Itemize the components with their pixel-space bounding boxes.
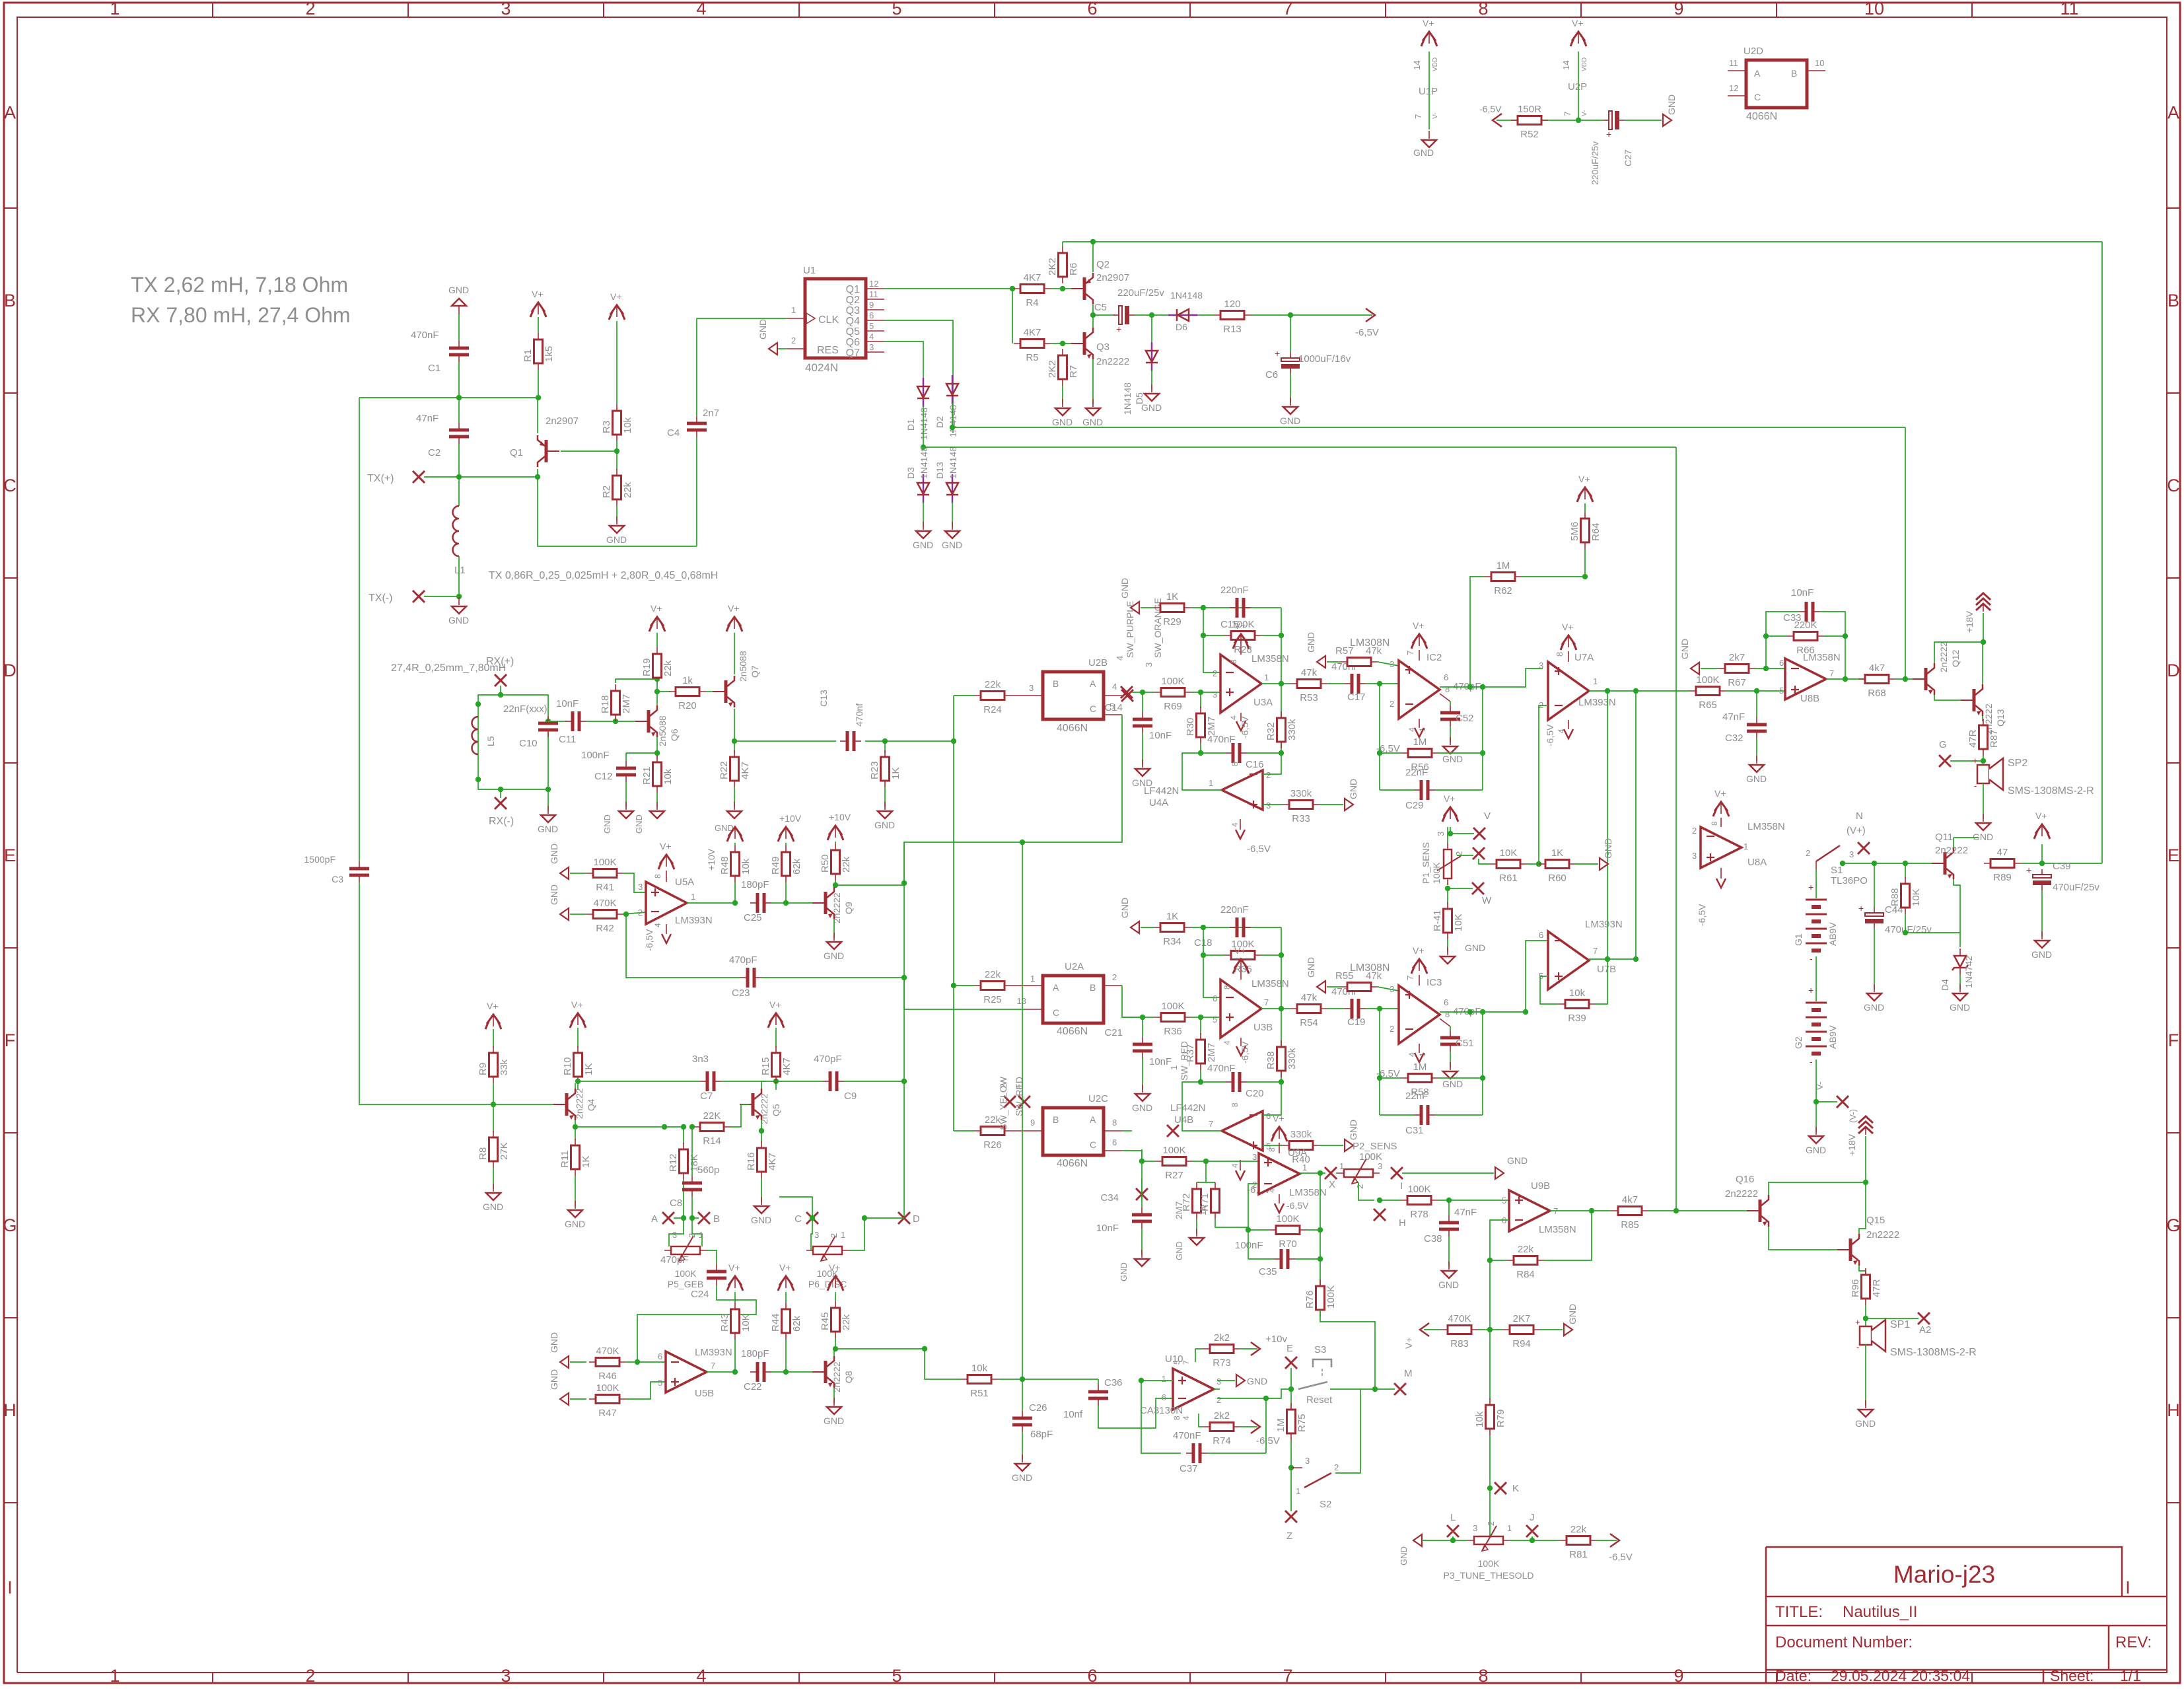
svg-text:4k7: 4k7 bbox=[1622, 1194, 1638, 1205]
frame column ticks and numbers bbox=[212, 3, 213, 17]
svg-text:B: B bbox=[4, 291, 16, 310]
svg-text:VDD: VDD bbox=[1581, 57, 1588, 71]
svg-text:2: 2 bbox=[305, 0, 315, 18]
junction bbox=[1605, 956, 1610, 962]
node X above C34 bbox=[1136, 1188, 1148, 1200]
svg-text:150R: 150R bbox=[1518, 104, 1541, 115]
junction bbox=[1201, 605, 1206, 610]
svg-text:A: A bbox=[1090, 678, 1096, 689]
svg-text:1: 1 bbox=[1169, 1065, 1179, 1070]
svg-text:-6,5V: -6,5V bbox=[1240, 716, 1250, 738]
ground below R72 bbox=[1196, 1229, 1197, 1237]
svg-text:10K: 10K bbox=[1500, 847, 1518, 859]
node +10v arrow bbox=[1251, 1342, 1260, 1355]
wire U7A output row bbox=[1589, 690, 1689, 692]
svg-text:C11: C11 bbox=[559, 734, 576, 745]
op-amp U8B LM358N bbox=[1785, 659, 1826, 700]
svg-text:7: 7 bbox=[1563, 112, 1572, 116]
svg-text:GND: GND bbox=[757, 319, 768, 340]
svg-text:-6,5V: -6,5V bbox=[1479, 104, 1502, 114]
svg-text:2K2: 2K2 bbox=[1047, 258, 1058, 275]
capacitor C16 470nF bbox=[1201, 752, 1226, 754]
svg-text:C2: C2 bbox=[428, 447, 440, 458]
resistor R10 bbox=[577, 1028, 579, 1048]
svg-text:Date:: Date: bbox=[1775, 1667, 1812, 1684]
junction bbox=[535, 474, 540, 480]
junction bbox=[1981, 639, 1986, 645]
capacitor C18 220nF bbox=[1230, 927, 1237, 928]
ground below R21 bbox=[656, 802, 658, 810]
svg-text:R12: R12 bbox=[668, 1153, 679, 1172]
svg-text:2: 2 bbox=[1806, 848, 1810, 858]
capacitor C39 470uF/25v bbox=[2041, 869, 2043, 876]
junction bbox=[1201, 925, 1206, 930]
svg-text:LM358N: LM358N bbox=[1747, 821, 1785, 832]
svg-text:S3: S3 bbox=[1314, 1344, 1326, 1355]
resistor R69 bbox=[1154, 692, 1191, 693]
wire IC3 output bbox=[1440, 1011, 1526, 1013]
svg-text:GND: GND bbox=[1603, 838, 1613, 859]
svg-text:+: + bbox=[1275, 348, 1280, 359]
svg-text:U2A: U2A bbox=[1065, 961, 1084, 972]
svg-text:1: 1 bbox=[1296, 1486, 1300, 1496]
svg-text:470K: 470K bbox=[1448, 1313, 1471, 1324]
svg-text:K: K bbox=[1512, 1483, 1519, 1494]
svg-text:GND: GND bbox=[1413, 147, 1434, 158]
svg-text:A: A bbox=[651, 1213, 658, 1225]
svg-text:GND: GND bbox=[1306, 957, 1316, 978]
svg-text:+: + bbox=[2026, 865, 2031, 875]
svg-text:1M: 1M bbox=[1413, 737, 1427, 748]
junction bbox=[810, 1215, 815, 1221]
svg-text:470K: 470K bbox=[596, 1346, 619, 1357]
svg-text:GND: GND bbox=[1973, 832, 1993, 842]
resistor R33 bbox=[1263, 804, 1283, 805]
svg-text:10nF: 10nF bbox=[1791, 587, 1814, 598]
svg-text:R33: R33 bbox=[1292, 813, 1310, 824]
wire U8B output bbox=[1826, 678, 1869, 680]
svg-text:1k: 1k bbox=[682, 675, 693, 686]
svg-text:Q7: Q7 bbox=[750, 665, 760, 678]
svg-text:62k: 62k bbox=[791, 858, 802, 875]
capacitor C2 bbox=[458, 398, 460, 423]
svg-text:GND: GND bbox=[1348, 779, 1358, 799]
svg-text:3: 3 bbox=[1144, 663, 1154, 667]
svg-text:220K: 220K bbox=[1794, 620, 1817, 631]
svg-text:C4: C4 bbox=[667, 427, 680, 439]
svg-text:A: A bbox=[1754, 68, 1761, 79]
capacitor C15 220nF bbox=[1230, 607, 1237, 608]
ground below SP2 bbox=[1983, 814, 1984, 822]
svg-text:C25: C25 bbox=[744, 912, 762, 923]
svg-text:2M7: 2M7 bbox=[1206, 1043, 1217, 1062]
junction bbox=[623, 912, 629, 917]
svg-text:10K: 10K bbox=[1453, 914, 1464, 931]
junction bbox=[662, 1124, 667, 1130]
svg-text:2k2: 2k2 bbox=[1214, 1410, 1230, 1421]
power +10V above R50 bbox=[829, 826, 842, 835]
svg-text:2n2222: 2n2222 bbox=[831, 1361, 842, 1392]
capacitor C35 100nF bbox=[1248, 1258, 1274, 1260]
svg-text:U3A: U3A bbox=[1253, 697, 1273, 708]
svg-text:1N4742: 1N4742 bbox=[1963, 956, 1974, 988]
svg-text:2n2222: 2n2222 bbox=[831, 892, 842, 923]
svg-text:2: 2 bbox=[1266, 770, 1271, 780]
svg-text:D: D bbox=[3, 661, 17, 680]
svg-text:CA3130N: CA3130N bbox=[1140, 1405, 1183, 1416]
svg-text:7: 7 bbox=[1283, 0, 1292, 18]
node B bbox=[698, 1212, 710, 1224]
svg-text:C9: C9 bbox=[844, 1091, 857, 1102]
svg-text:2n2222: 2n2222 bbox=[1935, 845, 1968, 856]
svg-text:V+: V+ bbox=[769, 999, 781, 1010]
svg-text:R13: R13 bbox=[1223, 324, 1242, 335]
wire bbox=[586, 721, 647, 722]
svg-text:GND: GND bbox=[1052, 417, 1073, 427]
junction bbox=[759, 1128, 764, 1133]
junction bbox=[575, 1079, 581, 1084]
svg-text:R46: R46 bbox=[598, 1371, 617, 1382]
junction bbox=[732, 900, 738, 906]
svg-text:F: F bbox=[5, 1030, 16, 1050]
wire top bus y366 bbox=[1063, 241, 2102, 242]
svg-text:4: 4 bbox=[653, 923, 662, 927]
ground arrow right R40 bbox=[1345, 1139, 1353, 1151]
svg-text:7: 7 bbox=[1264, 997, 1269, 1007]
svg-text:Q2: Q2 bbox=[1096, 259, 1110, 270]
svg-text:220nF: 220nF bbox=[1220, 585, 1249, 596]
svg-text:R88: R88 bbox=[1889, 888, 1901, 906]
junction bbox=[1576, 118, 1581, 123]
svg-text:R27: R27 bbox=[1165, 1170, 1183, 1181]
svg-text:C: C bbox=[1053, 1007, 1059, 1018]
power +18V above Q12 bbox=[1976, 593, 1990, 600]
resistor R88 bbox=[1905, 863, 1906, 879]
svg-text:470nF: 470nF bbox=[1207, 1063, 1236, 1074]
svg-text:GND: GND bbox=[1567, 1304, 1578, 1324]
svg-text:C37: C37 bbox=[1180, 1463, 1198, 1474]
node -6,5V below U3A bbox=[1236, 721, 1246, 731]
svg-text:Reset: Reset bbox=[1306, 1394, 1333, 1406]
resistor R50 bbox=[835, 844, 836, 880]
ground arrow pin3 bbox=[1217, 1380, 1235, 1381]
svg-text:Q11: Q11 bbox=[1935, 832, 1953, 843]
wire feedback right bbox=[1281, 608, 1282, 753]
svg-text:3: 3 bbox=[1305, 1456, 1310, 1466]
svg-text:2n2222: 2n2222 bbox=[759, 1093, 769, 1124]
svg-text:-: - bbox=[1810, 953, 1813, 964]
capacitor C14 10nF bbox=[1142, 692, 1143, 712]
svg-text:V+: V+ bbox=[1714, 788, 1726, 799]
wire U3A output bbox=[1261, 683, 1290, 684]
svg-text:5: 5 bbox=[1779, 686, 1784, 696]
svg-text:22k: 22k bbox=[622, 482, 633, 498]
resistor R74 bbox=[1199, 1414, 1203, 1427]
junction bbox=[1763, 633, 1769, 639]
svg-text:R19: R19 bbox=[641, 658, 652, 676]
capacitor C31 22nF bbox=[1380, 1114, 1414, 1116]
svg-text:7: 7 bbox=[1181, 1360, 1191, 1365]
svg-text:6: 6 bbox=[1444, 997, 1448, 1007]
resistor R27 bbox=[1156, 1161, 1193, 1162]
resistor R67 bbox=[1718, 668, 1755, 669]
ground below C44 bbox=[1874, 984, 1875, 992]
diode D5 1N4148 bbox=[1151, 315, 1152, 342]
junction bbox=[1279, 1079, 1284, 1085]
junction bbox=[1480, 684, 1485, 690]
svg-text:V+: V+ bbox=[1234, 945, 1246, 956]
svg-text:C: C bbox=[1090, 1139, 1096, 1150]
power V+ above U7A bbox=[1562, 635, 1575, 645]
ground arrow left P3 bbox=[1413, 1534, 1422, 1546]
svg-text:6: 6 bbox=[658, 1351, 662, 1361]
svg-text:R11: R11 bbox=[559, 1151, 571, 1168]
potentiometer P1_SENS bbox=[1447, 843, 1448, 885]
svg-text:R39: R39 bbox=[1568, 1013, 1586, 1024]
ground below R11 bbox=[575, 1201, 576, 1209]
wire x2434 to U7B bbox=[1607, 691, 1608, 959]
svg-text:U4B: U4B bbox=[1174, 1114, 1193, 1126]
svg-text:2: 2 bbox=[1216, 1395, 1221, 1405]
svg-text:5: 5 bbox=[892, 0, 901, 18]
svg-text:14: 14 bbox=[1561, 61, 1571, 70]
resistor R54 bbox=[1290, 1008, 1327, 1009]
resistor R23 bbox=[884, 741, 886, 753]
svg-text:TL36PO: TL36PO bbox=[1831, 875, 1868, 886]
svg-text:RX 7,80 mH, 27,4 Ohm: RX 7,80 mH, 27,4 Ohm bbox=[131, 303, 351, 327]
svg-text:C22: C22 bbox=[744, 1381, 762, 1392]
resistor R58 1M loop bbox=[1379, 1009, 1380, 1115]
svg-text:R38: R38 bbox=[1265, 1051, 1277, 1069]
junction bbox=[1480, 1009, 1485, 1015]
svg-text:+10v: +10v bbox=[1265, 1334, 1287, 1345]
junction bbox=[1903, 930, 1908, 935]
junction bbox=[833, 1346, 838, 1351]
svg-text:I: I bbox=[2125, 1578, 2131, 1598]
junction bbox=[1467, 684, 1473, 690]
svg-text:GND: GND bbox=[1306, 632, 1316, 653]
wire feedback left bbox=[1203, 927, 1220, 997]
diode D3 1N4148 bbox=[923, 474, 925, 503]
svg-text:22k: 22k bbox=[841, 1314, 852, 1330]
junction bbox=[901, 880, 907, 886]
svg-text:6: 6 bbox=[1779, 658, 1784, 668]
svg-text:1N4148: 1N4148 bbox=[948, 405, 958, 437]
svg-text:R18: R18 bbox=[600, 695, 611, 713]
resistor R47 bbox=[589, 1398, 626, 1400]
svg-text:7: 7 bbox=[1209, 1119, 1213, 1129]
svg-text:8: 8 bbox=[1267, 1147, 1277, 1152]
svg-text:R34: R34 bbox=[1163, 936, 1181, 947]
wire R50 to bus bbox=[835, 884, 904, 886]
resistor R13 bbox=[1214, 314, 1251, 316]
svg-text:LM393N: LM393N bbox=[1585, 919, 1623, 930]
svg-text:2: 2 bbox=[829, 1233, 839, 1238]
svg-text:2n7: 2n7 bbox=[703, 408, 719, 419]
svg-text:100K: 100K bbox=[1431, 862, 1442, 884]
node -6,5V arrow bbox=[1493, 114, 1502, 127]
svg-text:Mario-j23: Mario-j23 bbox=[1893, 1561, 1995, 1588]
capacitor C36 10nf bbox=[1098, 1379, 1099, 1384]
junction bbox=[882, 738, 888, 744]
power V+ above IC3 bbox=[1413, 959, 1426, 968]
svg-text:330k: 330k bbox=[1290, 788, 1312, 799]
svg-text:3: 3 bbox=[1213, 690, 1217, 700]
resistor R83 bbox=[1441, 1329, 1478, 1330]
svg-text:H: H bbox=[1399, 1217, 1406, 1229]
svg-text:+: + bbox=[1606, 129, 1611, 139]
resistor R49 bbox=[785, 845, 787, 882]
feedback C33/R66 bbox=[1766, 612, 1799, 668]
power V+ above Q7 bbox=[728, 617, 741, 626]
svg-text:GND: GND bbox=[1465, 943, 1485, 953]
power V+ above U5A bbox=[660, 855, 673, 864]
resistor R96 bbox=[1865, 1268, 1866, 1305]
svg-text:2n2222: 2n2222 bbox=[1096, 356, 1129, 367]
svg-text:3: 3 bbox=[1216, 1377, 1221, 1386]
node -6,5V arrow bbox=[1366, 308, 1375, 322]
wire U4A minus input bbox=[1263, 753, 1281, 774]
junction bbox=[1673, 1208, 1679, 1213]
svg-text:V+: V+ bbox=[1572, 18, 1584, 28]
svg-text:IC2: IC2 bbox=[1427, 652, 1442, 663]
power V+ above U8A bbox=[1714, 802, 1728, 811]
wire R15 to collector bbox=[761, 1081, 776, 1082]
svg-text:R9: R9 bbox=[477, 1063, 489, 1075]
junction bbox=[1536, 861, 1541, 867]
junction bbox=[862, 1215, 867, 1221]
junction bbox=[1279, 681, 1284, 686]
svg-text:RES: RES bbox=[817, 345, 839, 356]
resistor R42 bbox=[570, 914, 586, 915]
resistor R14 bbox=[693, 1126, 730, 1128]
svg-text:R96: R96 bbox=[1850, 1279, 1861, 1297]
ground arrow R42 bbox=[560, 908, 569, 920]
svg-text:10k: 10k bbox=[740, 858, 752, 875]
svg-text:U2D: U2D bbox=[1744, 46, 1763, 57]
svg-text:560p: 560p bbox=[697, 1165, 719, 1176]
svg-text:1K: 1K bbox=[581, 1156, 592, 1168]
node W bbox=[1448, 888, 1473, 889]
svg-text:A: A bbox=[2167, 103, 2179, 123]
svg-text:180pF: 180pF bbox=[741, 1348, 769, 1359]
svg-text:C36: C36 bbox=[1104, 1377, 1123, 1388]
ground below SP1 bbox=[1865, 1400, 1866, 1408]
svg-text:7: 7 bbox=[1405, 651, 1415, 655]
svg-text:LM358N: LM358N bbox=[1539, 1224, 1576, 1235]
wire bbox=[1815, 1060, 1817, 1102]
capacitor C13 470nf bbox=[840, 740, 847, 742]
wire feedback left bbox=[1203, 608, 1220, 672]
wire U10 feedback loop bbox=[1141, 1381, 1181, 1453]
svg-text:4024N: 4024N bbox=[805, 361, 838, 374]
resistor R36 bbox=[1154, 1017, 1191, 1018]
svg-text:10nF: 10nF bbox=[1096, 1223, 1119, 1234]
junction bbox=[1372, 1386, 1378, 1392]
svg-text:3: 3 bbox=[1378, 1161, 1382, 1171]
svg-text:1M: 1M bbox=[1413, 1061, 1427, 1073]
svg-text:2n2222: 2n2222 bbox=[1938, 641, 1949, 672]
svg-text:GND: GND bbox=[549, 884, 559, 905]
capacitor C8 560p bbox=[691, 1127, 693, 1176]
svg-text:GND: GND bbox=[1132, 1102, 1152, 1113]
wire bbox=[1625, 120, 1662, 121]
ground below C51 bbox=[1450, 1062, 1451, 1070]
svg-text:Sheet:: Sheet: bbox=[2050, 1667, 2094, 1684]
svg-text:TX 0,86R_0,25_0,025mH + 2,80R_: TX 0,86R_0,25_0,025mH + 2,80R_0,45_0,68m… bbox=[489, 570, 718, 581]
resistor R70 feedback bbox=[1248, 1229, 1269, 1231]
transistor Q7 2n5088 bbox=[724, 680, 728, 703]
svg-text:R23: R23 bbox=[869, 761, 880, 779]
power V+ above R43 bbox=[728, 1276, 742, 1285]
svg-text:L: L bbox=[1450, 1512, 1456, 1523]
svg-text:V+: V+ bbox=[2035, 810, 2047, 821]
junction bbox=[1198, 690, 1203, 695]
svg-text:1N4148: 1N4148 bbox=[948, 447, 958, 479]
speaker SP1 SMS-1308MS-2-R bbox=[1865, 1318, 1866, 1326]
svg-text:22nF(xxx): 22nF(xxx) bbox=[503, 703, 547, 715]
svg-text:D: D bbox=[2167, 661, 2180, 680]
svg-text:5: 5 bbox=[1172, 1360, 1181, 1365]
wire bbox=[1527, 863, 1539, 865]
ground below D5 bbox=[1151, 384, 1152, 392]
svg-text:33k: 33k bbox=[499, 1059, 510, 1075]
node -6,5V arrow bbox=[1251, 1420, 1260, 1433]
svg-text:C19: C19 bbox=[1347, 1017, 1366, 1028]
capacitor C4 bbox=[696, 318, 697, 416]
ground below C12 bbox=[625, 802, 627, 810]
svg-text:2: 2 bbox=[1486, 1521, 1496, 1526]
svg-text:7: 7 bbox=[1829, 668, 1834, 678]
svg-text:120: 120 bbox=[1224, 299, 1240, 310]
svg-text:V+: V+ bbox=[610, 291, 622, 302]
svg-text:P3_TUNE_THESOLD: P3_TUNE_THESOLD bbox=[1444, 1570, 1534, 1581]
ground arrow R55 bbox=[1317, 981, 1325, 993]
wire bbox=[1378, 987, 1399, 991]
svg-text:1M: 1M bbox=[1275, 1418, 1286, 1432]
junction bbox=[476, 777, 481, 782]
svg-text:4K7: 4K7 bbox=[1024, 272, 1041, 283]
svg-text:11: 11 bbox=[869, 289, 878, 299]
svg-text:R52: R52 bbox=[1520, 129, 1539, 140]
svg-text:14: 14 bbox=[1412, 61, 1422, 70]
wire feedback right bbox=[1281, 927, 1282, 1082]
svg-text:VDD: VDD bbox=[1432, 57, 1439, 71]
wire x2256 down bbox=[1489, 1260, 1491, 1330]
junction bbox=[1139, 1159, 1145, 1164]
node M bbox=[1375, 1388, 1395, 1390]
svg-text:3: 3 bbox=[1473, 1523, 1477, 1533]
svg-text:3: 3 bbox=[1390, 984, 1394, 994]
wire x2477 to R60 row bbox=[1635, 958, 1637, 960]
svg-text:L1: L1 bbox=[454, 565, 466, 576]
capacitor C32 47nF bbox=[1756, 691, 1757, 717]
junction bbox=[1377, 1198, 1382, 1203]
junction bbox=[1633, 688, 1638, 694]
junction bbox=[1020, 840, 1025, 845]
capacitor C26 68pF bbox=[1022, 1379, 1023, 1411]
node Z bbox=[1290, 1468, 1292, 1511]
switch S3 Reset bbox=[1313, 1359, 1331, 1367]
svg-text:LM358N: LM358N bbox=[1251, 653, 1289, 665]
svg-text:22k: 22k bbox=[1570, 1524, 1587, 1535]
svg-text:R28: R28 bbox=[1234, 644, 1252, 655]
svg-text:4: 4 bbox=[1112, 682, 1117, 692]
ground below R16 bbox=[761, 1197, 762, 1205]
svg-text:1: 1 bbox=[1302, 1163, 1307, 1172]
ground arrow R29 bbox=[1131, 602, 1139, 614]
svg-text:R-41: R-41 bbox=[1432, 910, 1443, 931]
